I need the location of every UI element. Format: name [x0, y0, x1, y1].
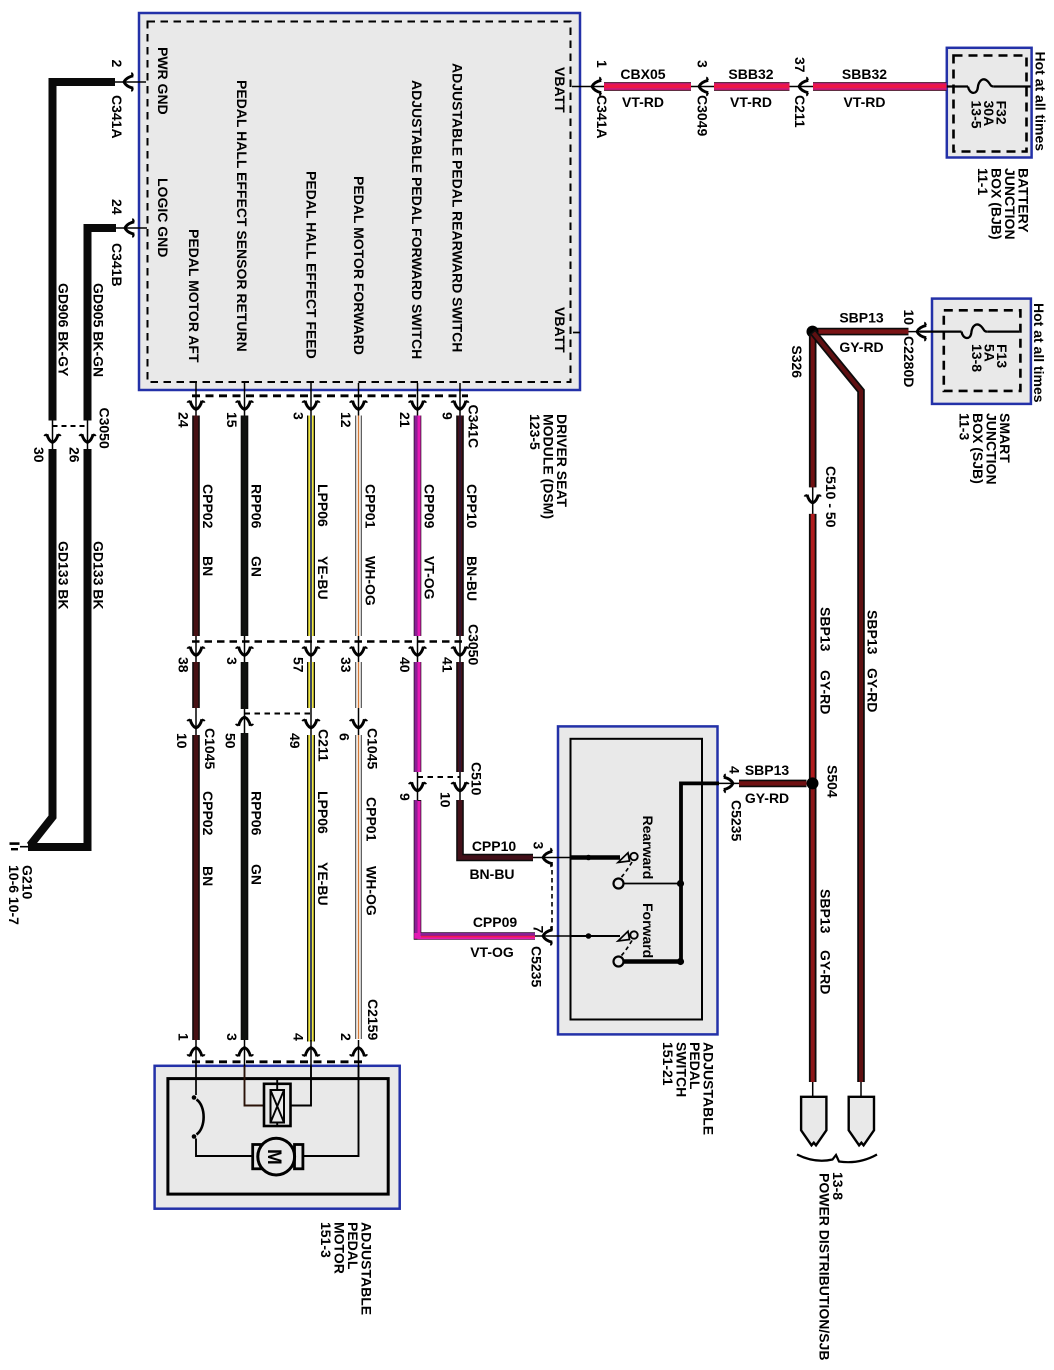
connector arrow C3050 pin 40: [409, 647, 427, 656]
connector label C2159: [365, 999, 381, 1040]
connector arrow C3050 pin 3: [236, 647, 254, 656]
wire CPP10 BN-BU segment B: [456, 662, 464, 772]
DSM bottom pin 15 lead: [244, 383, 246, 416]
svg-text:GN: GN: [249, 864, 265, 885]
breaker right lead: [291, 1066, 312, 1106]
svg-text:WH-OG: WH-OG: [363, 556, 379, 606]
pin 4 label C2159: [291, 1033, 307, 1041]
svg-text:10: 10: [901, 310, 917, 326]
pin 24 label: [109, 199, 125, 215]
rearward line junction dot: [586, 855, 592, 861]
svg-text:57: 57: [291, 657, 307, 673]
label SBB32 2: [842, 66, 887, 82]
pin 1 label C2159: [176, 1033, 192, 1041]
connector C211 lead: [790, 86, 814, 88]
splice S504: [807, 777, 819, 789]
svg-text:3: 3: [224, 657, 240, 665]
connector C3049 lead: [691, 86, 714, 88]
wire CPP01 WH-OG segment A: [355, 416, 361, 637]
clutch hook top: [192, 1095, 197, 1100]
svg-text:Hot at all times: Hot at all times: [1033, 52, 1049, 152]
label Forward: [640, 903, 656, 958]
connector arrow C3050 pin 33: [350, 647, 368, 656]
connector label C2280D: [901, 336, 917, 387]
fuse F32 element: [947, 79, 1031, 93]
svg-text:21: 21: [397, 412, 413, 428]
DSM pin 2 lead: [115, 81, 146, 83]
adjustable pedal switch name label: [660, 1042, 717, 1135]
svg-text:C3050: C3050: [97, 408, 113, 449]
forward line junction dot: [586, 933, 592, 939]
svg-text:11-1: 11-1: [975, 168, 991, 195]
svg-text:49: 49: [287, 733, 303, 749]
circuit breaker box: [264, 1079, 291, 1126]
label S326: [789, 345, 805, 378]
svg-text:151-21: 151-21: [660, 1042, 676, 1086]
svg-text:PEDAL HALL EFFECT FEED: PEDAL HALL EFFECT FEED: [304, 171, 320, 359]
wire SBP13 GY-RD to S326: [816, 328, 909, 336]
smart junction box (SJB): [932, 299, 1031, 404]
svg-text:Hot at all times: Hot at all times: [1031, 303, 1047, 403]
svg-text:CPP09: CPP09: [422, 484, 438, 529]
svg-text:C2280D: C2280D: [901, 336, 917, 387]
pin 3 label C3050: [224, 657, 240, 665]
connector C2280D lead: [909, 331, 933, 333]
label GD905 BK-GN: [91, 283, 107, 377]
C211 lead w3: [310, 708, 312, 735]
svg-text:GY-RD: GY-RD: [839, 339, 883, 355]
C2159 lead pin 4: [310, 1040, 312, 1066]
connector C5235 dashed line: [551, 862, 553, 932]
svg-text:50: 50: [223, 733, 239, 749]
svg-text:VT-OG: VT-OG: [422, 556, 438, 600]
svg-text:C510: C510: [469, 762, 485, 796]
pin 57 label C3050: [291, 657, 307, 673]
ground G210 symbol: [10, 844, 29, 850]
wire CBX05 VT-RD: [604, 82, 691, 91]
connector arrow C211: [799, 77, 808, 96]
pin 2 label: [109, 60, 125, 68]
pedal switch pin 4 lead: [702, 782, 739, 784]
connector arrow C5235 pin 4: [724, 774, 733, 793]
pin 10 label C510: [438, 792, 454, 808]
connector arrow C1045 pin 10: [187, 719, 205, 728]
pin 3 label C341C: [291, 412, 307, 420]
label CPP09 upper: [422, 484, 438, 600]
svg-text:LPP06: LPP06: [315, 791, 331, 834]
DSM label LOGIC GND: [155, 178, 171, 257]
wire RPP06 GN segment C: [241, 733, 249, 1040]
connector C211 dashed line: [245, 713, 312, 715]
svg-text:13-5: 13-5: [969, 101, 985, 129]
svg-text:RPP06: RPP06: [249, 791, 265, 836]
pin 9 label C510: [397, 793, 413, 801]
svg-text:30: 30: [31, 447, 47, 463]
wire LPP06 YE-BU segment A: [307, 416, 315, 637]
svg-text:10: 10: [174, 733, 190, 749]
ground C3050 lead 2: [87, 421, 89, 450]
svg-text:3: 3: [695, 60, 711, 68]
ground G210 label: [6, 865, 36, 925]
svg-text:C341C: C341C: [466, 405, 482, 449]
svg-text:10: 10: [438, 792, 454, 808]
C1045 lead w4: [358, 708, 360, 735]
fuse F32 label: [969, 101, 1010, 129]
svg-text:BN-BU: BN-BU: [469, 866, 514, 882]
wire CPP02 BN segment C: [192, 735, 200, 1040]
svg-text:151-3: 151-3: [318, 1222, 334, 1258]
forward output line: [624, 959, 681, 963]
svg-text:1: 1: [176, 1033, 192, 1041]
DSM bottom pin 9 lead: [459, 383, 461, 416]
svg-text:40: 40: [397, 657, 413, 673]
svg-text:VT-RD: VT-RD: [730, 94, 772, 110]
DSM name label: [527, 414, 570, 519]
label SBP13 at S326: [839, 310, 884, 326]
connector arrow C341C pin 15: [236, 401, 254, 410]
svg-text:GY-RD: GY-RD: [745, 790, 789, 806]
svg-text:7: 7: [531, 926, 547, 934]
pin 3 label C2159: [224, 1033, 240, 1041]
terminal left: [801, 1097, 826, 1146]
svg-text:3: 3: [224, 1033, 240, 1041]
svg-text:26: 26: [67, 447, 83, 463]
connector label C341B: [109, 243, 125, 287]
svg-text:10-6 10-7: 10-6 10-7: [6, 865, 22, 925]
svg-text:4: 4: [291, 1033, 307, 1041]
svg-text:VT-RD: VT-RD: [622, 94, 664, 110]
wire GD133 BK right: [28, 449, 88, 847]
label VT-RD 2: [730, 94, 772, 110]
C2159 lead pin 2: [358, 1040, 360, 1066]
power distribution label: [817, 1172, 847, 1360]
terminal lead left: [812, 1082, 814, 1097]
svg-text:S326: S326: [789, 345, 805, 378]
connector arrow C3050 pin 41: [451, 647, 469, 656]
connector arrow C211 pin 49: [302, 719, 320, 728]
pin 21 label C341C: [397, 412, 413, 428]
connector C3050 ground dashed line: [53, 425, 88, 427]
wire CPP02 BN segment B: [192, 662, 200, 708]
connector arrow ground pin 26: [79, 434, 96, 442]
fuse F13 label: [969, 344, 1010, 372]
connector C510 dashed line: [418, 776, 461, 778]
connector arrow C341A pin 2: [124, 73, 133, 92]
connector arrow ground pin 30: [44, 434, 61, 442]
svg-text:C510 - 50: C510 - 50: [823, 466, 839, 528]
wire CPP01 WH-OG segment B: [355, 662, 361, 708]
connector arrow C3050 pin 38: [187, 647, 205, 656]
svg-text:S504: S504: [825, 765, 841, 798]
DSM label PEDAL HALL EFFECT SENSOR RETURN: [234, 80, 250, 352]
connector arrow C5235 pin 7: [543, 927, 552, 946]
svg-text:11-3: 11-3: [957, 413, 973, 440]
connector arrow C2159 pin 1: [187, 1048, 205, 1057]
terminal lead right: [860, 1082, 862, 1097]
label GD133 BK right: [91, 541, 107, 609]
connector label C1045 left: [202, 728, 218, 769]
svg-text:C1045: C1045: [202, 728, 218, 769]
C510 lead w5: [417, 772, 419, 800]
wire SBP13 GY-RD to pedal switch: [739, 780, 807, 788]
DSM bottom pin 3 lead: [310, 383, 312, 416]
svg-text:GD905 BK-GN: GD905 BK-GN: [91, 283, 107, 377]
svg-text:2: 2: [109, 60, 125, 68]
DSM label ADJUSTABLE PEDAL FORWARD SWITCH: [409, 80, 425, 359]
svg-text:GD133 BK: GD133 BK: [56, 541, 72, 609]
pin 10 label C2280D: [901, 310, 917, 326]
connector label C341A left: [109, 95, 125, 139]
label RPP06 lower: [249, 791, 265, 885]
label GD133 BK left: [56, 541, 72, 609]
rearward lower terminal: [614, 879, 624, 889]
connector label C5235 right: [729, 800, 745, 841]
DSM label PEDAL HALL EFFECT FEED: [304, 171, 320, 359]
pin 6 label: [337, 733, 353, 741]
svg-text:12: 12: [338, 412, 354, 428]
svg-text:RPP06: RPP06: [249, 484, 265, 529]
DSM label PEDAL MOTOR FORWARD: [351, 176, 367, 355]
label CBX05: [620, 66, 665, 82]
inline connector C510-50: [812, 487, 814, 514]
connector arrow C211 pin 50: [236, 717, 254, 726]
pin 2 label C2159: [338, 1033, 354, 1041]
svg-text:C3050: C3050: [466, 624, 482, 665]
svg-text:37: 37: [792, 57, 808, 73]
wire GD906 BK-GY upper: [53, 82, 116, 421]
label SBP13 right branch: [865, 610, 881, 655]
svg-text:SBP13: SBP13: [818, 607, 834, 652]
svg-text:C341B: C341B: [109, 243, 125, 287]
pin 12 label C341C: [338, 412, 354, 428]
C3050 lead pin 3: [244, 636, 246, 662]
connector label C3049: [695, 95, 711, 136]
connector arrow C341C pin 24: [187, 401, 205, 410]
svg-text:9: 9: [397, 793, 413, 801]
wire RPP06 GN segment A: [241, 416, 249, 637]
label GY-RD left upper: [818, 670, 834, 714]
wire CPP02 BN segment A: [192, 416, 200, 637]
C2159 lead pin 1: [195, 1040, 197, 1066]
connector label C211 mid: [316, 729, 332, 762]
connector arrow C2159 pin 2: [350, 1048, 368, 1057]
bus junction dot rearward: [677, 880, 684, 887]
svg-text:SBP13: SBP13: [818, 889, 834, 934]
splice S326: [807, 326, 819, 338]
svg-text:M: M: [263, 1149, 284, 1165]
label CPP01 upper: [363, 484, 379, 606]
pin 4 label: [727, 766, 743, 774]
svg-text:C1045: C1045: [365, 728, 381, 769]
label VT-OG: [470, 944, 514, 960]
label C510 - 50: [823, 466, 839, 528]
label SBP13 left lower: [818, 889, 834, 934]
wire SBP13 GY-RD diagonal branch: [813, 332, 862, 1082]
pin 37 label: [792, 57, 808, 73]
label CPP10: [472, 838, 517, 854]
label Rearward: [640, 816, 656, 880]
wire LPP06 YE-BU segment B: [307, 662, 315, 708]
label VT-RD 1: [622, 94, 664, 110]
connector arrow C341C pin 12: [350, 401, 368, 410]
label BN-BU: [469, 866, 514, 882]
motor letter M: [263, 1149, 284, 1165]
bus junction dot forward: [677, 958, 684, 965]
DSM label VBATT lower: [552, 307, 568, 353]
wire LPP06 YE-BU segment C: [307, 735, 315, 1042]
rearward output line: [624, 883, 681, 885]
connector arrow C5235 pin 3: [543, 848, 552, 867]
pin 30 label: [31, 447, 47, 463]
svg-text:3: 3: [531, 842, 547, 850]
forward contact terminal: [630, 931, 637, 938]
adjustable pedal switch box: [558, 726, 718, 1034]
label GY-RD right branch: [865, 668, 881, 712]
BJB Hot at all times: [1033, 52, 1049, 152]
svg-text:CPP02: CPP02: [200, 791, 216, 836]
svg-text:ADJUSTABLE PEDAL REARWARD SWIT: ADJUSTABLE PEDAL REARWARD SWITCH: [450, 63, 466, 352]
wire SBP13 GY-RD left branch upper: [809, 334, 817, 487]
pin 9 label C341C: [440, 412, 456, 420]
pin 50 label: [223, 733, 239, 749]
svg-text:VBATT: VBATT: [552, 67, 568, 113]
motor brush right: [295, 1145, 303, 1169]
svg-text:6: 6: [337, 733, 353, 741]
motor left lead: [196, 1139, 253, 1157]
svg-text:PEDAL HALL EFFECT SENSOR RETUR: PEDAL HALL EFFECT SENSOR RETURN: [234, 80, 250, 352]
motor right lead: [303, 1066, 359, 1156]
svg-text:BN-BU: BN-BU: [464, 556, 480, 601]
forward switch feed line: [571, 935, 620, 937]
pin 41 label C3050: [440, 657, 456, 673]
svg-text:WH-OG: WH-OG: [364, 866, 380, 916]
connector C2159 dashed line: [192, 1060, 365, 1063]
pin 7 label C5235: [531, 926, 547, 934]
label GY-RD left lower: [818, 950, 834, 994]
rearward travel arc: [622, 862, 633, 877]
svg-text:CPP09: CPP09: [473, 914, 518, 930]
DSM VBATT lower pin stub: [573, 332, 580, 334]
C1045 lead w1: [195, 708, 197, 735]
connector arrow C2159 pin 3: [236, 1048, 254, 1057]
C3050 lead pin 41: [459, 636, 461, 662]
C510 lead w6: [459, 772, 461, 800]
DSM pin 24 lead: [116, 227, 147, 229]
connector label C211: [792, 95, 808, 128]
pin 3 label: [695, 60, 711, 68]
DSM label PEDAL MOTOR AFT: [186, 229, 202, 363]
svg-text:PEDAL MOTOR FORWARD: PEDAL MOTOR FORWARD: [351, 176, 367, 355]
svg-text:BN: BN: [200, 556, 216, 576]
svg-text:GY-RD: GY-RD: [865, 668, 881, 712]
connector label C341A: [594, 95, 610, 139]
clutch arc: [197, 1100, 204, 1135]
svg-text:ADJUSTABLE PEDAL FORWARD SWITC: ADJUSTABLE PEDAL FORWARD SWITCH: [409, 80, 425, 359]
label RPP06 upper: [249, 484, 265, 577]
svg-text:CBX05: CBX05: [620, 66, 665, 82]
C211 lead w2: [244, 709, 246, 733]
svg-text:4: 4: [727, 766, 743, 774]
svg-text:C5235: C5235: [729, 800, 745, 841]
adjustable pedal motor name label: [318, 1222, 375, 1315]
connector arrow C3049: [699, 77, 708, 96]
svg-text:C341A: C341A: [109, 95, 125, 139]
connector arrow C510-50: [804, 495, 821, 503]
ground C3050 lead 1: [52, 421, 54, 450]
label CPP02 upper: [200, 484, 216, 576]
label CPP02 lower: [200, 791, 216, 886]
pedal switch pin 7 lead: [535, 935, 571, 937]
svg-text:CPP01: CPP01: [364, 797, 380, 842]
C3050 lead pin 40: [417, 636, 419, 662]
svg-text:C211: C211: [316, 729, 332, 762]
svg-text:C2159: C2159: [365, 999, 381, 1040]
svg-text:LPP06: LPP06: [315, 484, 331, 527]
connector label C510: [469, 762, 485, 796]
rearward contact terminal: [630, 853, 637, 860]
svg-text:CPP10: CPP10: [472, 838, 517, 854]
connector arrow C341A pin1: [592, 77, 601, 96]
rearward contact arm: [618, 853, 630, 863]
label LPP06 lower: [315, 791, 331, 906]
connector C341C dashed line: [192, 394, 468, 397]
wire CPP10 BN-BU segment A: [456, 416, 464, 637]
svg-text:33: 33: [338, 657, 354, 673]
connector C3050 dashed line: [192, 640, 464, 642]
pin 26 label: [67, 447, 83, 463]
battery junction box (BJB): [947, 48, 1032, 158]
label VT-RD 3: [844, 94, 886, 110]
label GY-RD at S326: [839, 339, 883, 355]
svg-text:C5235: C5235: [529, 946, 545, 987]
svg-text:SBB32: SBB32: [842, 66, 887, 82]
wire SBB32 VT-RD segment 2: [813, 82, 947, 91]
wire GD905 BK-GN upper: [88, 228, 117, 421]
label S504: [825, 765, 841, 798]
svg-text:VT-RD: VT-RD: [844, 94, 886, 110]
wire SBB32 VT-RD segment 1: [714, 82, 790, 91]
connector arrow C341C pin 3: [302, 401, 320, 410]
pin 40 label C3050: [397, 657, 413, 673]
svg-text:SBP13: SBP13: [839, 310, 884, 326]
svg-text:LOGIC GND: LOGIC GND: [155, 178, 171, 257]
SJB name label: [957, 413, 1014, 485]
svg-text:38: 38: [176, 657, 192, 673]
DSM label VBATT top: [552, 67, 568, 113]
connector arrow C2159 pin 4: [302, 1048, 320, 1057]
motor brush left: [253, 1145, 261, 1169]
svg-text:Rearward: Rearward: [640, 816, 656, 880]
connector arrow C341B pin 24: [125, 219, 134, 238]
label GY-RD at S504: [745, 790, 789, 806]
pedal switch pin 3 lead: [533, 857, 571, 859]
svg-text:SBP13: SBP13: [865, 610, 881, 655]
svg-text:123-5: 123-5: [527, 414, 543, 450]
connector arrow C2280D pin 10: [917, 322, 926, 341]
label GD906 BK-GY: [56, 283, 72, 377]
C3050 lead pin 38: [195, 636, 197, 662]
driver seat module (DSM) box: [139, 13, 580, 390]
forward lower terminal: [614, 957, 624, 967]
connector arrow C1045 pin 6: [350, 719, 368, 728]
connector arrow C510 pin 10: [451, 782, 469, 791]
svg-text:2: 2: [338, 1033, 354, 1041]
wire GD133 BK left: [30, 449, 53, 846]
svg-text:24: 24: [109, 199, 125, 215]
label CPP10 upper: [464, 484, 480, 601]
svg-text:CPP01: CPP01: [363, 484, 379, 529]
connector label C3050 ground: [97, 408, 113, 449]
